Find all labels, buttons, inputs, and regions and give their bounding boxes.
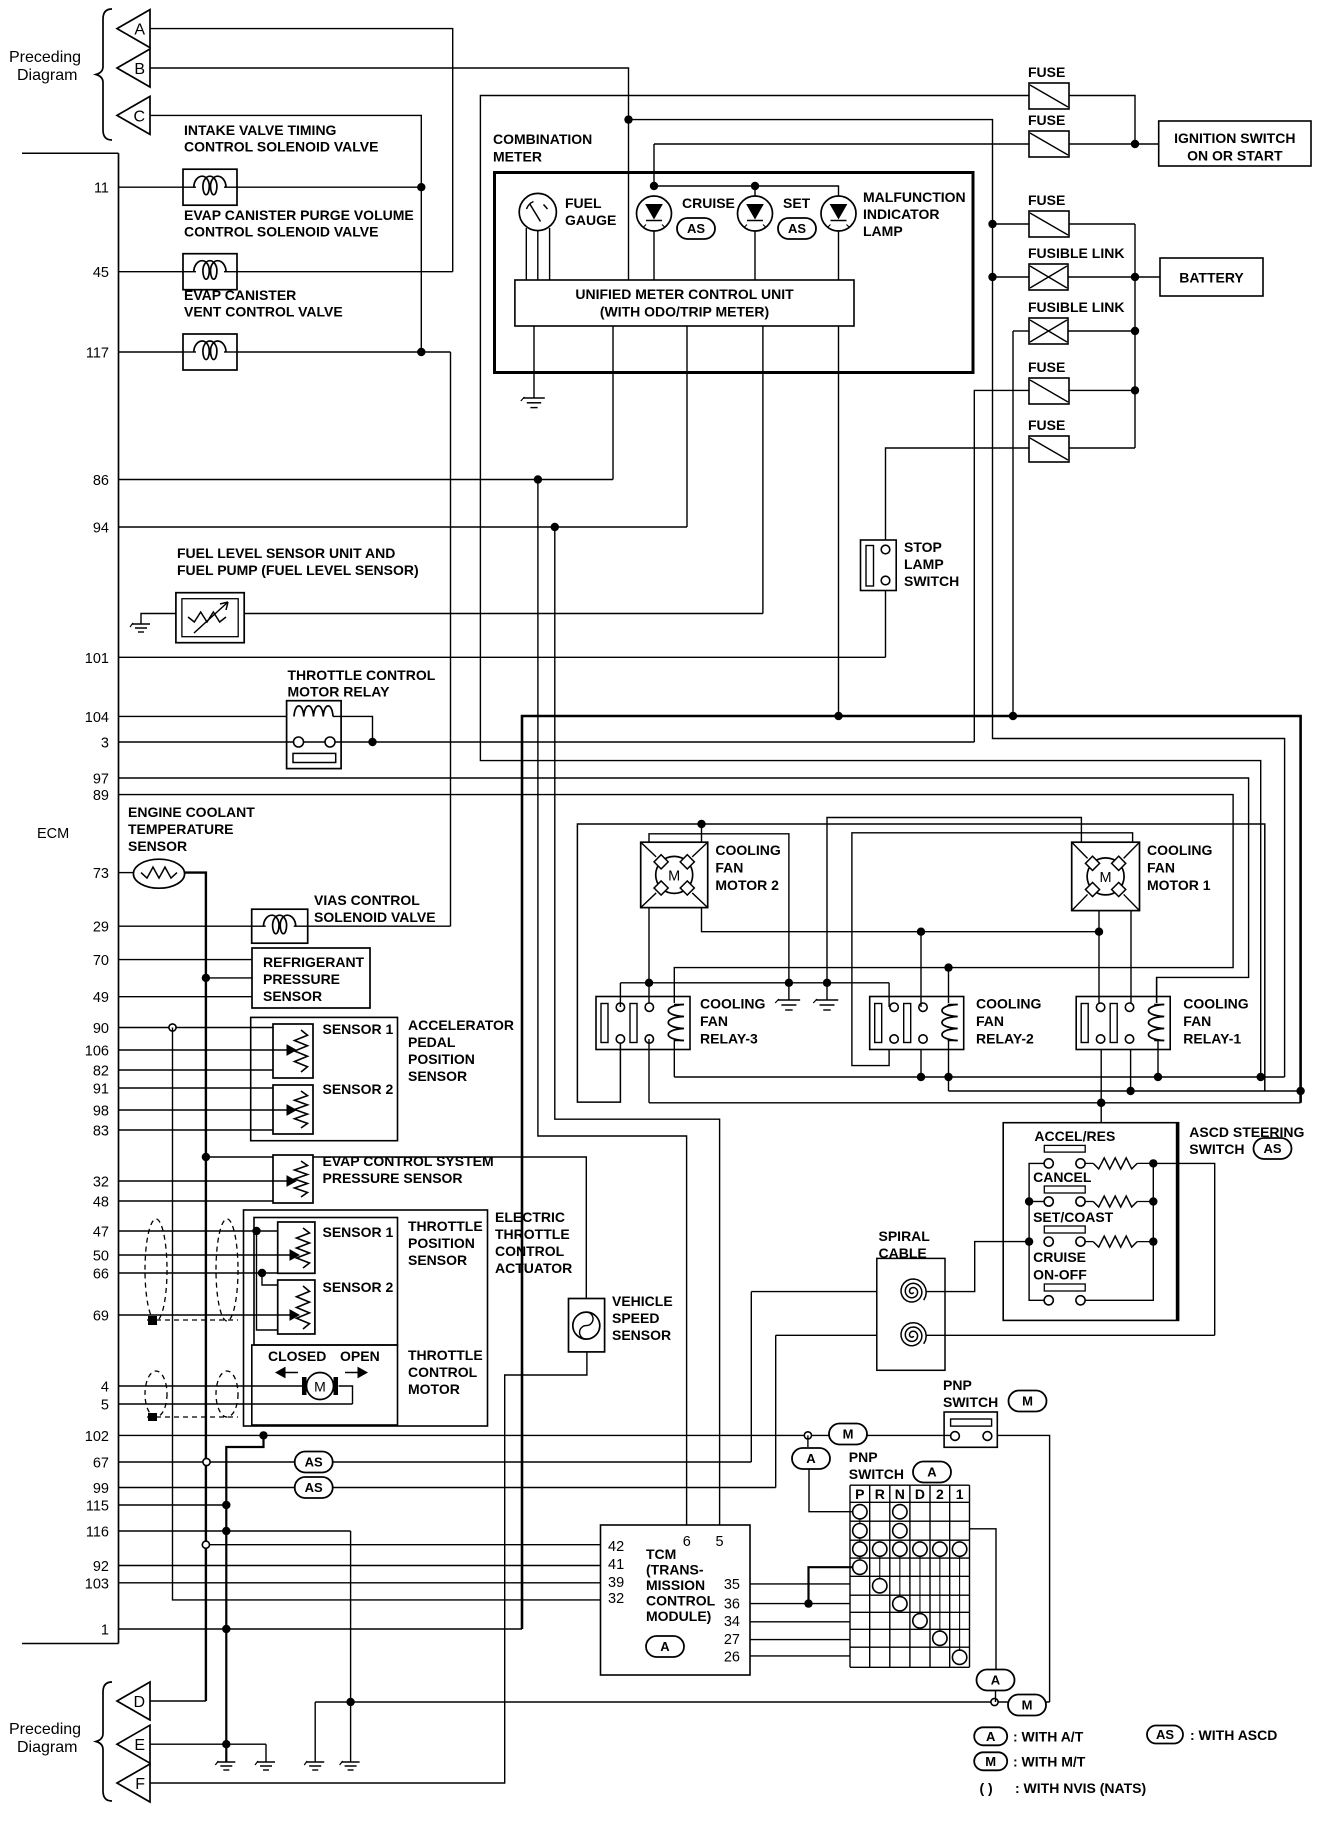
svg-text:ON-OFF: ON-OFF bbox=[1033, 1267, 1087, 1283]
svg-text:IGNITION SWITCH: IGNITION SWITCH bbox=[1174, 130, 1295, 146]
svg-text:INDICATOR: INDICATOR bbox=[863, 206, 939, 222]
svg-text:M: M bbox=[1022, 1698, 1033, 1713]
svg-text:6: 6 bbox=[683, 1534, 691, 1550]
svg-text:47: 47 bbox=[93, 1225, 109, 1241]
svg-text:2: 2 bbox=[936, 1486, 944, 1502]
svg-text:A: A bbox=[986, 1729, 996, 1744]
svg-text:EVAP CANISTER PURGE VOLUME: EVAP CANISTER PURGE VOLUME bbox=[184, 207, 414, 223]
svg-text:VENT CONTROL VALVE: VENT CONTROL VALVE bbox=[184, 304, 343, 320]
svg-text:PRESSURE SENSOR: PRESSURE SENSOR bbox=[323, 1170, 463, 1186]
svg-text:FUSIBLE LINK: FUSIBLE LINK bbox=[1028, 245, 1124, 261]
svg-text:B: B bbox=[134, 61, 145, 78]
svg-text:(TRANS-: (TRANS- bbox=[646, 1562, 704, 1578]
svg-text:41: 41 bbox=[608, 1557, 624, 1573]
svg-text:COOLING: COOLING bbox=[1183, 996, 1248, 1012]
svg-text:SENSOR 1: SENSOR 1 bbox=[323, 1021, 394, 1037]
svg-text:83: 83 bbox=[93, 1124, 109, 1140]
svg-text:103: 103 bbox=[85, 1576, 109, 1592]
svg-text:101: 101 bbox=[85, 651, 109, 667]
svg-text:F: F bbox=[135, 1776, 145, 1793]
svg-text:Diagram: Diagram bbox=[17, 1739, 77, 1756]
svg-text:CONTROL: CONTROL bbox=[408, 1364, 478, 1380]
svg-text:SWITCH: SWITCH bbox=[904, 573, 959, 589]
svg-text:SENSOR: SENSOR bbox=[408, 1252, 467, 1268]
svg-text:82: 82 bbox=[93, 1064, 109, 1080]
svg-text:ON OR START: ON OR START bbox=[1187, 148, 1283, 164]
svg-text:AS: AS bbox=[305, 1480, 323, 1495]
svg-text:35: 35 bbox=[724, 1577, 740, 1593]
svg-text:THROTTLE CONTROL: THROTTLE CONTROL bbox=[288, 667, 436, 683]
svg-text:CRUISE: CRUISE bbox=[682, 195, 735, 211]
svg-text:: WITH ASCD: : WITH ASCD bbox=[1190, 1727, 1277, 1743]
svg-text:4: 4 bbox=[101, 1380, 109, 1396]
svg-text:MOTOR: MOTOR bbox=[408, 1381, 460, 1397]
svg-text:CANCEL: CANCEL bbox=[1033, 1169, 1092, 1185]
svg-text:26: 26 bbox=[724, 1650, 740, 1666]
svg-text:TCM: TCM bbox=[646, 1546, 676, 1562]
svg-text:FAN: FAN bbox=[1147, 860, 1175, 876]
svg-text:FUEL: FUEL bbox=[565, 195, 602, 211]
svg-text:Diagram: Diagram bbox=[17, 67, 77, 84]
svg-text:INTAKE VALVE TIMING: INTAKE VALVE TIMING bbox=[184, 122, 337, 138]
svg-text:ACTUATOR: ACTUATOR bbox=[495, 1260, 572, 1276]
svg-text:VIAS CONTROL: VIAS CONTROL bbox=[314, 892, 420, 908]
svg-text:3: 3 bbox=[101, 736, 109, 752]
svg-text:RELAY-2: RELAY-2 bbox=[976, 1031, 1034, 1047]
svg-text:86: 86 bbox=[93, 473, 109, 489]
svg-text:COOLING: COOLING bbox=[715, 842, 780, 858]
svg-text:39: 39 bbox=[608, 1575, 624, 1591]
svg-text:TEMPERATURE: TEMPERATURE bbox=[128, 821, 234, 837]
svg-text:METER: METER bbox=[493, 149, 542, 165]
svg-text:FUSIBLE LINK: FUSIBLE LINK bbox=[1028, 299, 1124, 315]
svg-text:R: R bbox=[875, 1486, 885, 1502]
svg-text:A: A bbox=[991, 1673, 1001, 1688]
svg-text:THROTTLE: THROTTLE bbox=[408, 1218, 483, 1234]
svg-text:GAUGE: GAUGE bbox=[565, 212, 616, 228]
svg-text:45: 45 bbox=[93, 265, 109, 281]
svg-text:COMBINATION: COMBINATION bbox=[493, 131, 592, 147]
svg-text:E: E bbox=[134, 1737, 145, 1754]
svg-text:89: 89 bbox=[93, 788, 109, 804]
svg-text:104: 104 bbox=[85, 710, 109, 726]
svg-text:ECM: ECM bbox=[37, 826, 69, 842]
svg-text:115: 115 bbox=[86, 1499, 109, 1515]
svg-text:SWITCH: SWITCH bbox=[1189, 1141, 1244, 1157]
svg-text:FAN: FAN bbox=[715, 860, 743, 876]
svg-text:97: 97 bbox=[93, 772, 109, 788]
svg-text:FAN: FAN bbox=[700, 1013, 728, 1029]
svg-text:: WITH A/T: : WITH A/T bbox=[1013, 1729, 1084, 1745]
svg-text:SENSOR 2: SENSOR 2 bbox=[323, 1081, 394, 1097]
svg-text:LAMP: LAMP bbox=[904, 556, 944, 572]
svg-text:EVAP CONTROL SYSTEM: EVAP CONTROL SYSTEM bbox=[323, 1153, 494, 1169]
svg-text:FUSE: FUSE bbox=[1028, 64, 1065, 80]
svg-text:ENGINE COOLANT: ENGINE COOLANT bbox=[128, 804, 255, 820]
svg-text:MODULE): MODULE) bbox=[646, 1608, 711, 1624]
svg-text:( ): ( ) bbox=[980, 1780, 993, 1796]
svg-text:92: 92 bbox=[93, 1559, 109, 1575]
svg-text:116: 116 bbox=[86, 1525, 109, 1541]
svg-text:34: 34 bbox=[724, 1614, 740, 1630]
svg-text:CONTROL: CONTROL bbox=[646, 1593, 716, 1609]
svg-text:THROTTLE: THROTTLE bbox=[408, 1347, 483, 1363]
svg-text:ASCD STEERING: ASCD STEERING bbox=[1189, 1124, 1304, 1140]
svg-text:UNIFIED METER CONTROL UNIT: UNIFIED METER CONTROL UNIT bbox=[575, 286, 794, 302]
svg-text:MALFUNCTION: MALFUNCTION bbox=[863, 189, 966, 205]
svg-text:11: 11 bbox=[94, 181, 109, 197]
svg-text:29: 29 bbox=[93, 920, 109, 936]
svg-text:D: D bbox=[133, 1694, 145, 1711]
svg-text:70: 70 bbox=[93, 953, 109, 969]
svg-text:C: C bbox=[133, 108, 145, 125]
svg-text:A: A bbox=[660, 1639, 670, 1654]
svg-text:ACCEL/RES: ACCEL/RES bbox=[1034, 1128, 1115, 1144]
svg-text:CONTROL: CONTROL bbox=[495, 1243, 565, 1259]
svg-text:PNP: PNP bbox=[943, 1377, 972, 1393]
svg-text:POSITION: POSITION bbox=[408, 1235, 475, 1251]
svg-text:SENSOR 1: SENSOR 1 bbox=[323, 1224, 394, 1240]
svg-text:CRUISE: CRUISE bbox=[1033, 1249, 1086, 1265]
svg-text:POSITION: POSITION bbox=[408, 1051, 475, 1067]
svg-text:98: 98 bbox=[93, 1104, 109, 1120]
svg-text:THROTTLE: THROTTLE bbox=[495, 1226, 570, 1242]
svg-text:: WITH M/T: : WITH M/T bbox=[1013, 1754, 1086, 1770]
svg-text:FAN: FAN bbox=[1183, 1013, 1211, 1029]
svg-text:36: 36 bbox=[724, 1597, 740, 1613]
svg-text:MISSION: MISSION bbox=[646, 1577, 705, 1593]
svg-text:BATTERY: BATTERY bbox=[1179, 270, 1244, 286]
svg-text:RELAY-3: RELAY-3 bbox=[700, 1031, 758, 1047]
svg-text:106: 106 bbox=[85, 1044, 109, 1060]
svg-text:CONTROL SOLENOID VALVE: CONTROL SOLENOID VALVE bbox=[184, 224, 378, 240]
svg-text:P: P bbox=[855, 1486, 864, 1502]
svg-text:M: M bbox=[843, 1427, 854, 1442]
svg-text:AS: AS bbox=[788, 221, 806, 236]
svg-text:48: 48 bbox=[93, 1195, 109, 1211]
svg-text:ACCELERATOR: ACCELERATOR bbox=[408, 1017, 514, 1033]
svg-text:SENSOR: SENSOR bbox=[263, 988, 322, 1004]
svg-text:AS: AS bbox=[1263, 1141, 1281, 1156]
svg-text:50: 50 bbox=[93, 1249, 109, 1265]
svg-text:73: 73 bbox=[93, 866, 109, 882]
svg-text:PRESSURE: PRESSURE bbox=[263, 971, 340, 987]
svg-text:117: 117 bbox=[86, 346, 109, 362]
svg-text:M: M bbox=[1100, 870, 1112, 886]
svg-text:: WITH NVIS (NATS): : WITH NVIS (NATS) bbox=[1015, 1780, 1146, 1796]
svg-text:SOLENOID VALVE: SOLENOID VALVE bbox=[314, 909, 436, 925]
svg-text:FUEL LEVEL SENSOR UNIT AND: FUEL LEVEL SENSOR UNIT AND bbox=[177, 545, 395, 561]
svg-text:MOTOR 2: MOTOR 2 bbox=[715, 877, 779, 893]
svg-text:FUSE: FUSE bbox=[1028, 359, 1065, 375]
svg-text:SENSOR 2: SENSOR 2 bbox=[323, 1279, 394, 1295]
svg-text:EVAP CANISTER: EVAP CANISTER bbox=[184, 287, 296, 303]
svg-text:FUEL PUMP (FUEL LEVEL SENSOR): FUEL PUMP (FUEL LEVEL SENSOR) bbox=[177, 562, 419, 578]
svg-text:LAMP: LAMP bbox=[863, 223, 903, 239]
svg-text:32: 32 bbox=[608, 1591, 624, 1607]
svg-text:MOTOR 1: MOTOR 1 bbox=[1147, 877, 1211, 893]
svg-text:49: 49 bbox=[93, 990, 109, 1006]
svg-text:99: 99 bbox=[93, 1481, 109, 1497]
svg-text:SET/COAST: SET/COAST bbox=[1033, 1209, 1114, 1225]
svg-text:FUSE: FUSE bbox=[1028, 192, 1065, 208]
svg-text:MOTOR RELAY: MOTOR RELAY bbox=[288, 684, 391, 700]
svg-text:ELECTRIC: ELECTRIC bbox=[495, 1209, 565, 1225]
svg-text:SPIRAL: SPIRAL bbox=[879, 1228, 931, 1244]
svg-text:AS: AS bbox=[687, 221, 705, 236]
svg-text:REFRIGERANT: REFRIGERANT bbox=[263, 954, 365, 970]
svg-text:PEDAL: PEDAL bbox=[408, 1034, 456, 1050]
svg-text:(WITH ODO/TRIP METER): (WITH ODO/TRIP METER) bbox=[600, 304, 769, 320]
svg-text:STOP: STOP bbox=[904, 539, 942, 555]
svg-text:5: 5 bbox=[716, 1534, 724, 1550]
svg-text:M: M bbox=[985, 1754, 996, 1769]
svg-text:1: 1 bbox=[101, 1623, 109, 1639]
svg-text:1: 1 bbox=[956, 1486, 964, 1502]
svg-text:A: A bbox=[134, 22, 145, 39]
svg-text:A: A bbox=[806, 1451, 816, 1466]
svg-text:M: M bbox=[668, 868, 680, 884]
svg-text:D: D bbox=[915, 1486, 925, 1502]
svg-text:COOLING: COOLING bbox=[700, 996, 765, 1012]
svg-text:FUSE: FUSE bbox=[1028, 417, 1065, 433]
svg-text:SENSOR: SENSOR bbox=[128, 838, 187, 854]
svg-text:AS: AS bbox=[305, 1455, 323, 1470]
svg-text:Preceding: Preceding bbox=[9, 49, 81, 66]
svg-text:27: 27 bbox=[724, 1632, 740, 1648]
svg-text:VEHICLE: VEHICLE bbox=[612, 1293, 673, 1309]
svg-text:SET: SET bbox=[783, 195, 811, 211]
svg-text:M: M bbox=[314, 1379, 326, 1395]
svg-text:M: M bbox=[1022, 1394, 1033, 1409]
svg-text:FUSE: FUSE bbox=[1028, 112, 1065, 128]
svg-text:COOLING: COOLING bbox=[976, 996, 1041, 1012]
svg-text:32: 32 bbox=[93, 1175, 109, 1191]
svg-text:RELAY-1: RELAY-1 bbox=[1183, 1031, 1241, 1047]
svg-text:91: 91 bbox=[93, 1082, 109, 1098]
svg-text:90: 90 bbox=[93, 1021, 109, 1037]
svg-text:N: N bbox=[895, 1486, 905, 1502]
svg-text:OPEN: OPEN bbox=[340, 1348, 380, 1364]
svg-text:A: A bbox=[927, 1465, 937, 1480]
svg-text:SENSOR: SENSOR bbox=[408, 1068, 467, 1084]
svg-text:PNP: PNP bbox=[849, 1449, 878, 1465]
svg-text:5: 5 bbox=[101, 1398, 109, 1414]
svg-text:COOLING: COOLING bbox=[1147, 842, 1212, 858]
svg-text:SENSOR: SENSOR bbox=[612, 1327, 671, 1343]
svg-text:CLOSED: CLOSED bbox=[268, 1348, 326, 1364]
svg-text:SWITCH: SWITCH bbox=[849, 1466, 904, 1482]
svg-text:AS: AS bbox=[1156, 1727, 1174, 1742]
svg-text:CONTROL SOLENOID VALVE: CONTROL SOLENOID VALVE bbox=[184, 139, 378, 155]
svg-text:66: 66 bbox=[93, 1267, 109, 1283]
svg-text:69: 69 bbox=[93, 1309, 109, 1325]
svg-text:FAN: FAN bbox=[976, 1013, 1004, 1029]
svg-text:94: 94 bbox=[93, 521, 109, 537]
svg-text:SWITCH: SWITCH bbox=[943, 1394, 998, 1410]
svg-text:SPEED: SPEED bbox=[612, 1310, 659, 1326]
svg-text:102: 102 bbox=[85, 1429, 109, 1445]
svg-text:67: 67 bbox=[93, 1456, 109, 1472]
svg-text:Preceding: Preceding bbox=[9, 1721, 81, 1738]
svg-text:42: 42 bbox=[608, 1539, 624, 1555]
